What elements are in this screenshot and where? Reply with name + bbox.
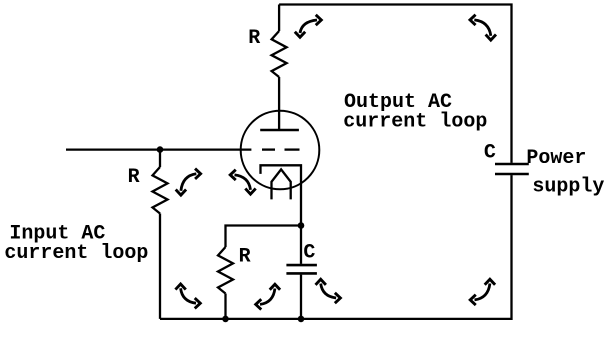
svg-text:current loop: current loop	[343, 110, 487, 133]
svg-text:R: R	[128, 166, 140, 189]
svg-text:R: R	[239, 246, 251, 269]
svg-text:Power: Power	[526, 147, 586, 170]
svg-text:C: C	[303, 242, 315, 265]
svg-text:supply: supply	[532, 176, 604, 199]
svg-text:R: R	[248, 27, 260, 50]
svg-text:current loop: current loop	[4, 242, 148, 265]
svg-text:C: C	[484, 142, 496, 165]
